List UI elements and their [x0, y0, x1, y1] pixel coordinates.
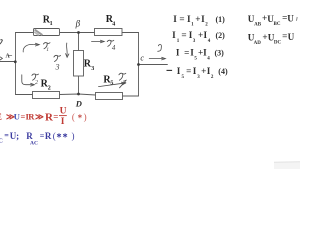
svg-text:2: 2	[35, 80, 38, 86]
svg-text:C: C	[0, 139, 3, 145]
svg-text:=: =	[184, 47, 189, 57]
svg-text:4: 4	[112, 21, 115, 27]
svg-text:+: +	[195, 14, 200, 24]
svg-text:4: 4	[112, 44, 116, 52]
svg-text:DC: DC	[274, 41, 282, 46]
svg-text:I: I	[172, 30, 176, 40]
svg-text:1: 1	[46, 47, 49, 53]
svg-text:(1): (1)	[216, 15, 226, 24]
svg-text:R: R	[26, 131, 33, 141]
svg-text:U: U	[14, 112, 20, 122]
svg-text:I: I	[193, 66, 197, 76]
svg-text:U: U	[60, 107, 67, 117]
svg-text:1: 1	[191, 22, 194, 27]
svg-text:I: I	[61, 117, 65, 127]
svg-text:(4): (4)	[218, 67, 228, 76]
svg-text:U;: U;	[10, 131, 20, 141]
svg-text:U: U	[287, 14, 294, 24]
svg-text:(: (	[72, 112, 75, 122]
svg-text:): )	[84, 112, 87, 122]
svg-text:(3): (3)	[215, 48, 225, 57]
svg-text:2: 2	[48, 85, 51, 91]
svg-text:D: D	[75, 98, 82, 108]
svg-text:AC: AC	[30, 141, 38, 147]
svg-text:E: E	[0, 112, 2, 122]
svg-text:U: U	[288, 32, 295, 42]
svg-text:=: =	[181, 30, 186, 40]
svg-text:=: =	[4, 131, 9, 140]
svg-text:): )	[72, 131, 75, 141]
svg-text:4: 4	[208, 39, 211, 44]
svg-text:3: 3	[91, 66, 94, 72]
svg-text:2: 2	[211, 75, 214, 80]
svg-text:=: =	[282, 31, 287, 41]
svg-text:1: 1	[177, 39, 180, 44]
svg-text:3: 3	[193, 39, 196, 44]
svg-text:I: I	[173, 14, 177, 24]
svg-text:=: =	[186, 66, 191, 76]
svg-text:3: 3	[197, 75, 200, 80]
svg-text:2: 2	[205, 22, 208, 27]
svg-text:A: A	[6, 54, 11, 60]
svg-text:5: 5	[182, 75, 185, 80]
svg-text:β: β	[75, 19, 81, 29]
svg-text:+: +	[198, 30, 203, 40]
svg-text:c: c	[140, 53, 144, 62]
svg-text:I: I	[176, 47, 180, 57]
svg-text:4: 4	[207, 56, 210, 61]
svg-text:3: 3	[55, 62, 60, 71]
svg-text:R: R	[45, 131, 52, 141]
svg-text:5: 5	[194, 56, 197, 61]
svg-text:5: 5	[110, 81, 113, 87]
svg-text:AB: AB	[254, 22, 262, 27]
svg-text:+: +	[201, 66, 206, 76]
svg-text:AD: AD	[254, 41, 262, 46]
svg-text:≫: ≫	[35, 113, 44, 122]
svg-text:=: =	[53, 112, 58, 122]
svg-text:BC: BC	[274, 22, 281, 27]
svg-text:(2): (2)	[216, 31, 226, 40]
svg-text:(: (	[53, 131, 56, 141]
svg-text:=: =	[179, 14, 184, 24]
svg-text:I: I	[177, 66, 181, 76]
svg-text:1: 1	[50, 21, 53, 27]
